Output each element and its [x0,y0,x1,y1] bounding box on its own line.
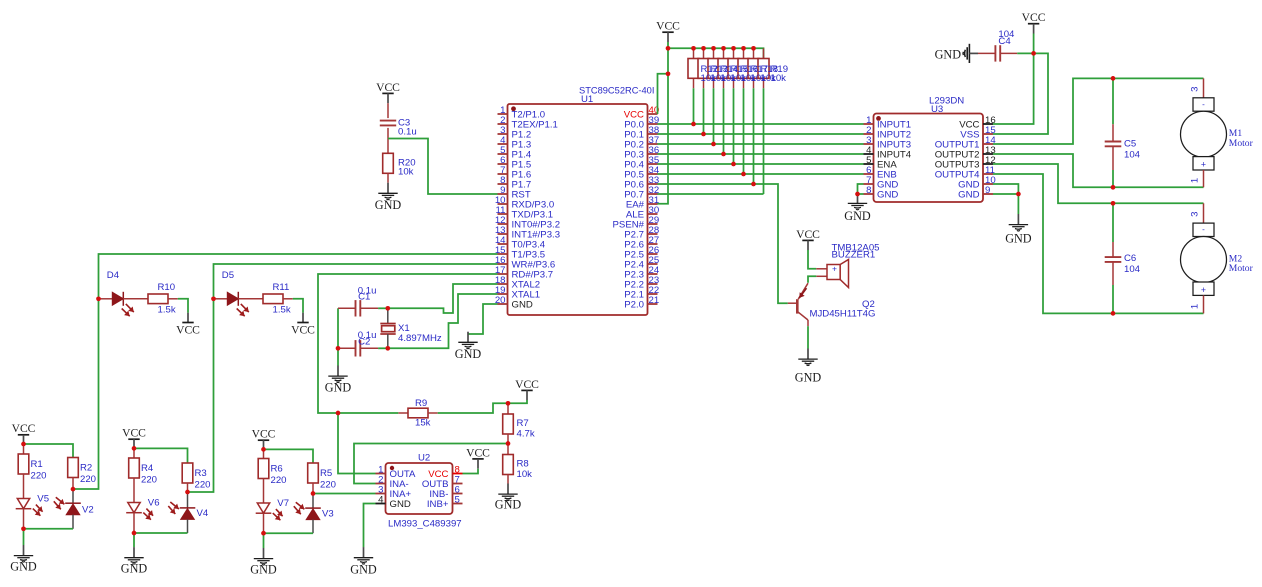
U1 pin 23 P2.2 [648,283,658,285]
wire R19 to P0.7 [763,88,765,194]
svg-text:GND: GND [121,562,148,576]
transistor Q2 emitter arrow [799,288,806,298]
junction R2 output node [71,487,76,492]
junction R17 top [741,46,746,51]
led V4 lead top [187,492,189,508]
resistor R18 lead bottom [753,78,755,88]
motor M2 lead top [1203,203,1205,223]
junction sensor bottom V6 [132,531,137,536]
U1 pin 6 P1.5 [498,163,508,165]
resistor R10 lead right [168,298,178,300]
resistor R4 lead top [133,448,135,458]
U1 pin 2 T2EX/P1.1 [498,123,508,125]
diode D4 lead right / resistor R10 lead left [123,298,148,300]
junction crystal top [385,306,390,311]
svg-text:VCC: VCC [466,446,490,459]
svg-text:GND: GND [325,381,352,395]
ground GND under Q2 [795,349,822,385]
wire C4 to VCC junction [1017,52,1033,54]
junction P0.3 at R15 [721,152,726,157]
svg-text:R8: R8 [517,459,529,470]
resistor R1 body [18,454,29,474]
resistor R18 lead top [753,48,755,58]
resistor R15 lead top [723,48,725,58]
U1 pin 17 RD#/P3.7 [498,273,508,275]
svg-text:R6: R6 [271,464,283,475]
U1 pin 3 P1.2 [498,133,508,135]
capacitor C5 lead bottom [1112,146,1114,170]
motor M1 lead bottom [1203,170,1205,187]
junction VCC top right [1031,51,1036,56]
wire P0.4 to ENA [658,163,864,165]
svg-text:10k: 10k [771,73,787,84]
wire VCC branch to R2 [24,444,74,458]
svg-text:4.7k: 4.7k [517,429,535,440]
svg-text:P2.0: P2.0 [624,299,644,310]
resistor R7 lead top [507,403,509,414]
svg-text:VCC: VCC [252,428,276,441]
svg-text:C4: C4 [998,36,1011,47]
svg-text:220: 220 [320,479,336,490]
wire sensor bottom rail V5 [24,528,74,530]
resistor R13 body [698,59,709,79]
svg-text:V4: V4 [197,508,209,519]
svg-text:C2: C2 [358,337,370,348]
capacitor C6 plates [1105,257,1122,262]
U1 pin 28 P2.7 [648,233,658,235]
junction R7 top node [506,401,511,406]
ground GND sensor pair V7 [250,548,277,577]
wire C5 column bottom [1112,170,1114,187]
wire P0.7 to R19 [658,193,764,195]
U1 pin 10 RXD/P3.0 [498,203,508,205]
capacitor C2 plates [356,340,361,356]
led V7 arrows [276,509,283,516]
U2 pin 5 INB+ [453,503,463,505]
svg-text:104: 104 [1124,264,1141,275]
resistor R17 lead bottom [743,78,745,88]
svg-text:Motor: Motor [1229,138,1254,149]
led V7 lead bottom [263,513,265,533]
wire to GND V7 [263,533,265,548]
svg-text:VCC: VCC [515,378,539,391]
svg-text:4.897MHz: 4.897MHz [398,333,442,344]
wire C5 column top [1112,78,1114,124]
U1 pin 27 P2.6 [648,243,658,245]
power VCC for U2 pin8 [466,446,490,468]
resistor R3 body [182,463,193,483]
svg-text:VCC: VCC [796,228,820,241]
capacitor C6 lead bottom [1112,262,1114,285]
capacitor C3 lead top [387,103,389,118]
U1 pin 18 XTAL2 [498,283,508,285]
junction R3 output node [185,490,190,495]
resistor R8 lead top [507,444,509,455]
motor M2 body [1181,223,1227,295]
U1 pin 5 P1.4 [498,153,508,155]
svg-text:104: 104 [1124,150,1141,161]
U1 pin 34 P0.5 [648,173,658,175]
resistor R14 lead bottom [713,78,715,88]
junction C5 bottom [1111,185,1116,190]
wire U3 pin8 to ground [858,193,864,195]
resistor R8 body [503,455,514,475]
U3 pin 5 ENA [864,163,874,165]
U1 pin 8 P1.7 [498,183,508,185]
resistor R5 lead bottom [312,483,314,494]
wire VCC down to U3 pin16 [993,34,1034,125]
wire node to U2 OUTA [338,413,376,474]
wire R16 to P0.4 [733,88,735,164]
wire sensor bottom rail V6 [134,532,188,534]
U3 pin 2 INPUT2 [864,133,874,135]
wire to GND V5 [23,529,25,545]
wire R14 to P0.2 [713,88,715,144]
wire T0/P3.4 row to sensor1 [73,254,498,489]
wire P0.2 to INPUT3 [658,143,864,145]
ground GND U3 left [844,193,871,223]
wire RST net C3/R20 to U1 pin9 [388,139,498,195]
power VCC top right [1022,11,1046,33]
led V2 arrows [56,497,65,504]
resistor R4 body [129,458,140,478]
microcontroller U1 body STC89C52RC-40I [508,104,648,315]
junction R12 top [691,46,696,51]
wire C1 right to node [378,307,388,309]
U1 pin 14 T0/P3.4 [498,243,508,245]
junction VCC R1 [21,442,26,447]
U1 pin 20 GND [498,303,508,305]
U1 pin 11 TXD/P3.1 [498,213,508,215]
ground GND sideways for C4 [935,44,978,63]
svg-text:GND: GND [390,499,411,510]
junction VCC pin40 branch [666,71,671,76]
svg-text:R5: R5 [320,468,332,479]
svg-text:220: 220 [31,470,47,481]
capacitor C2 lead left [338,347,356,349]
wire buzzer pin2 to Q2 emitter [808,276,816,283]
svg-text:+: + [832,263,837,273]
wire R9 right to VCC node [438,403,508,413]
U1 pin 1 T2/P1.0 [498,113,508,115]
svg-text:R4: R4 [141,463,154,474]
resistor R3 lead bottom [187,483,189,492]
wire P0.5 to ENB [658,173,864,175]
svg-text:VCC: VCC [12,422,36,435]
power VCC net top-middle [656,20,680,42]
resistor R1 lead bottom [23,474,25,499]
svg-text:220: 220 [195,479,211,490]
U1 pin 4 P1.3 [498,143,508,145]
svg-text:1.5k: 1.5k [273,304,291,315]
diode D5 [227,292,238,306]
svg-text:GND: GND [10,560,37,574]
svg-text:5: 5 [455,495,460,506]
led V2 receiver [65,503,81,515]
wire U3 pin7 to ground [858,184,864,194]
svg-text:10k: 10k [398,166,414,177]
U3 pin 10 GND [983,183,993,185]
svg-text:VCC: VCC [176,323,200,336]
svg-text:GND: GND [250,563,277,577]
diode D4 lead left [99,298,113,300]
U1 pin 38 P0.1 [648,133,658,135]
U1 pin 19 XTAL1 [498,293,508,295]
svg-text:C6: C6 [1124,253,1136,264]
wire to GND V6 [133,533,135,547]
junction R7/R8 divider [506,441,511,446]
U2 pin 6 INB- [453,493,463,495]
U3 pin 9 GND [983,193,993,195]
junction VCC main [666,46,671,51]
crystal X1 lead bottom [387,334,389,348]
junction C5 top [1111,76,1116,81]
comparator U2 body LM393 [386,463,453,514]
svg-text:U1: U1 [581,94,593,105]
U2 orientation dot [390,466,394,470]
ground GND under R20 [375,183,402,212]
diode D5 arrows [241,304,249,312]
resistor R8 lead bottom [507,475,509,484]
svg-text:Motor: Motor [1229,263,1254,274]
junction sensor bottom V7 [261,531,266,536]
junction sensor bottom V5 [21,526,26,531]
wire P0.6 to buzzer transistor [658,184,788,303]
U1 pin 35 P0.4 [648,163,658,165]
junction C6 top [1111,201,1116,206]
wire U3 pin9 to ground [993,193,1018,195]
svg-text:R3: R3 [195,468,207,479]
resistor R16 lead bottom [733,78,735,88]
svg-text:R11: R11 [273,282,290,293]
resistor R13 lead top [703,48,705,58]
svg-text:V6: V6 [148,498,160,509]
resistor R20 lead bottom [387,173,389,182]
wire T1/P3.5 row to sensor2 [188,264,498,492]
svg-text:GND: GND [350,562,377,576]
wire P0.1 to INPUT2 [658,133,864,135]
junction P0.2 at R14 [711,142,716,147]
U2 pin 4 GND [376,503,386,505]
U1 pin 12 INT0#/P3.2 [498,223,508,225]
U1 pin 22 P2.1 [648,293,658,295]
wire R12 to P0.0 [693,88,695,124]
wire R11 to VCC [293,299,303,313]
resistor R5 body [308,463,319,483]
resistor R12 lead top [693,48,695,58]
resistor R13 lead bottom [703,78,705,88]
ground GND U3 right [1005,214,1032,246]
resistor R7 body [503,414,514,434]
led V5 lead bottom [23,509,25,529]
capacitor C1 lead left [338,307,356,309]
capacitor C5 plates [1105,142,1122,147]
svg-text:8: 8 [866,185,871,196]
svg-text:V2: V2 [82,504,94,515]
motor M1 body [1181,98,1227,170]
led V5 arrows [36,505,43,512]
svg-text:9: 9 [985,185,990,196]
U3 pin 7 GND [864,183,874,185]
U1 pin 24 P2.3 [648,273,658,275]
resistor R11 lead right [283,298,293,300]
transistor Q2 collector lead [797,311,808,320]
wire VCC to buzzer pin1 [808,250,816,269]
U3 pin 4 INPUT4 [864,153,874,155]
U3 pin 12 OUTPUT3 [983,163,993,165]
svg-text:R9: R9 [415,398,427,409]
wire VCC branch to R3 [134,448,188,463]
resistor R17 body [738,59,749,79]
U3 pin 3 INPUT3 [864,143,874,145]
power VCC inverted for R10 [176,313,200,337]
capacitor C3 plates [380,121,396,126]
svg-text:0.1u: 0.1u [398,127,417,138]
resistor R9 lead right [428,412,438,414]
wire WR#/P3.6 row to comparator node [318,274,498,413]
U1 pin 9 RST [498,193,508,195]
led V6 lead bottom [133,513,135,533]
ground GND crystal [325,366,352,395]
resistor R19 lead bottom [763,78,765,88]
capacitor C4 plates [995,45,1000,61]
svg-text:LM393_C489397: LM393_C489397 [388,519,462,530]
led V3 lead bottom [312,520,314,534]
svg-text:MJD45H11T4G: MJD45H11T4G [810,309,876,320]
svg-text:C1: C1 [358,292,370,303]
U1 pin 25 P2.4 [648,263,658,265]
wire VCC to U3 pin15 VSS [993,53,1048,134]
U3 pin 14 OUTPUT1 [983,143,993,145]
svg-text:V7: V7 [277,498,289,509]
U3 orientation dot [876,116,881,121]
svg-text:R2: R2 [80,463,92,474]
U1 pin 33 P0.6 [648,183,658,185]
buzzer BUZZER1 body TMB12A05 [827,265,840,280]
led V7 emitter [256,503,272,513]
led V2 lead bottom [72,515,74,529]
resistor R16 body [728,59,739,79]
power VCC buzzer [796,228,820,250]
wire OUTPUT3 to M2 top [993,164,1204,203]
resistor R9 lead left [398,412,408,414]
svg-text:3: 3 [1190,212,1201,217]
capacitor C5 lead top [1112,124,1114,141]
wire OUTPUT4 to M2 bottom [993,174,1204,313]
capacitor C4 lead left [978,52,995,54]
led V3 arrows [296,502,305,509]
svg-text:R7: R7 [517,418,529,429]
junction U3 gnd pins [855,192,860,197]
wire P0.0 to INPUT1 [658,123,864,125]
svg-text:GND: GND [958,189,979,200]
svg-text:GND: GND [877,189,898,200]
wire VCC branch to R5 [264,449,314,463]
wire sensor bottom rail V7 [264,532,314,534]
svg-text:21: 21 [649,295,660,306]
wire R13 to P0.1 [703,88,705,134]
junction R15 top [721,46,726,51]
resistor R9 body [408,408,428,418]
power VCC above C3 [376,81,400,103]
led V4 receiver [180,508,196,520]
resistor R11 body [263,294,283,304]
U3 pin 15 VSS [983,133,993,135]
wire R15 to P0.3 [723,88,725,154]
wire XTAL2 to crystal top [388,284,498,313]
resistor R14 body [708,59,719,79]
U1 pin 16 WR#/P3.6 [498,263,508,265]
U2 pin 1 OUTA [376,473,386,475]
resistor R4 lead bottom [133,478,135,503]
U1 pin 32 P0.7 [648,193,658,195]
junction P0.6 at R18 [751,182,756,187]
U1 pin 37 P0.2 [648,143,658,145]
svg-text:U2: U2 [418,453,430,464]
wire R9 left [338,412,398,414]
junction VCC R6 [261,447,266,452]
U1 pin 26 P2.5 [648,253,658,255]
U3 pin 11 OUTPUT4 [983,173,993,175]
U1 pin 7 P1.6 [498,173,508,175]
crystal X1 plates and body [380,323,395,325]
wire C2 right to node [378,347,388,349]
power VCC above R7 [515,378,539,400]
ground GND sensor pair V6 [121,547,148,576]
ground GND sensor pair V5 [10,545,37,574]
svg-text:GND: GND [495,497,522,511]
U3 pin 1 INPUT1 [864,123,874,125]
svg-text:15k: 15k [415,418,431,429]
U1 pin 36 P0.3 [648,153,658,155]
wire OUTPUT1 to M1 top [993,78,1204,144]
wire crystal left rail [337,308,339,365]
U2 pin 2 INA- [376,483,386,485]
ground GND for U1 pin20 [455,332,482,361]
led V3 lead top [312,494,314,509]
transistor Q2 emitter lead [798,283,808,299]
capacitor C1 lead right [360,307,378,309]
junction P0.4 at R16 [731,162,736,167]
wire divider to U2 INA- [354,444,508,484]
led V2 lead top [72,489,74,503]
wire C6 column top [1112,203,1114,242]
ground GND under R8 [495,484,522,512]
diode D5 lead right / resistor R11 lead left [238,298,263,300]
wire VCC vertical to EA# [658,42,669,204]
resistor R17 lead top [743,48,745,58]
svg-text:220: 220 [80,474,96,485]
power VCC sensor pair R1/R2 [12,422,36,444]
transistor Q2 base lead [788,302,798,304]
resistor R16 lead top [733,48,735,58]
led V6 arrows [146,509,153,516]
svg-text:VCC: VCC [1022,11,1046,24]
resistor R2 lead bottom [72,478,74,490]
U1 orientation dot [511,106,516,111]
wire C6 column bottom [1112,285,1114,313]
junction R13 top [701,46,706,51]
motor-driver U3 body L293DN [874,114,984,203]
led V4 arrows [170,502,179,509]
ground GND under U2 [350,547,377,576]
wire R10 to VCC [178,299,188,313]
U1 pin 29 PSEN# [648,223,658,225]
svg-text:3: 3 [1190,87,1201,92]
power VCC sensor pair R6/R5 [252,428,276,450]
wire U2 INA+ from sensor3 [313,493,376,495]
svg-text:+: + [1201,160,1206,170]
